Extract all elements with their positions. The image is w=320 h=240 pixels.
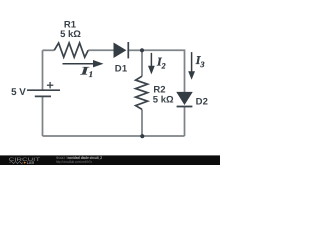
svg-text:D1: D1 [115, 63, 128, 74]
node junction bottom (142,136) [140, 134, 144, 138]
svg-text:D2: D2 [196, 97, 209, 108]
resistor R1 zigzag [54, 43, 88, 57]
svg-text:LAB: LAB [27, 160, 34, 165]
wire: junction to top-right corner and down to D2 [142, 50, 185, 92]
current arrow I3 (down) [188, 52, 195, 80]
svg-text:http://circuitlab.com/cmk9r7e: http://circuitlab.com/cmk9r7e [56, 160, 92, 164]
diode D1 triangle [114, 43, 126, 58]
current arrow I1 (right) [63, 60, 104, 67]
wire top-left: left vertical from top corner down to battery [42, 50, 44, 90]
wire top segment: top-left corner to R1 [43, 49, 55, 51]
svg-text:5 kΩ: 5 kΩ [60, 29, 81, 40]
battery plus sign [47, 82, 53, 88]
diode D2 cathode bar [177, 106, 193, 108]
node junction top (142,50.3) [140, 48, 144, 52]
diode D1 cathode bar [127, 42, 129, 58]
wire: R2 branch upper lead [141, 50, 143, 76]
svg-text:5 V: 5 V [11, 87, 26, 98]
CircuitLab logo zigzag [10, 161, 24, 163]
resistor R2 zigzag (vertical) [136, 76, 148, 109]
wire: R1 to D1 [88, 49, 114, 51]
diode D2 triangle (pointing down) [177, 92, 192, 104]
wire: D2 to bottom-right corner [184, 107, 186, 136]
wire: R2 branch lower lead [141, 109, 143, 136]
current arrow I2 (down) [148, 53, 155, 75]
svg-text:5 kΩ: 5 kΩ [153, 94, 174, 105]
wire bottom: bottom-left corner to bottom-right corner [43, 135, 185, 137]
footer black bar [0, 155, 220, 165]
wire left bottom: battery to bottom-left corner [42, 96, 44, 136]
battery V1 5V plates [27, 90, 60, 96]
wire: D1 bar to junction node [128, 49, 142, 51]
CircuitLab logo orange diode mark [24, 161, 26, 163]
